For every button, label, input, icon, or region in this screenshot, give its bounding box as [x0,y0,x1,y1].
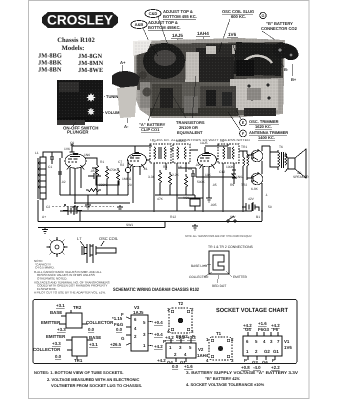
svg-text:.05: .05 [90,169,95,173]
svg-text:3.3K: 3.3K [148,175,156,179]
svg-text:1AJ5: 1AJ5 [172,33,183,38]
chassis title text [38,37,104,74]
svg-text:A-: A- [124,124,129,129]
svg-text:BOTTOM 455 KC.: BOTTOM 455 KC. [163,14,197,19]
svg-text:20: 20 [128,183,132,187]
svg-text:CROSLEY: CROSLEY [47,13,113,28]
svg-text:+26.5: +26.5 [110,342,122,347]
svg-text:EMITTER: EMITTER [46,334,66,339]
svg-text:JM-8BN: JM-8BN [38,67,62,74]
chassis top view photograph [133,38,298,118]
diode crystal D1 [232,170,236,184]
svg-text:G4: G4 [245,327,251,332]
photo speckle texture [134,38,285,118]
loop antenna L1 [39,157,46,199]
callout oval A and B [131,21,147,29]
tuning capacitor dark round mass [143,43,185,79]
T3 windings [177,147,186,159]
svg-text:NOTES: 1. BOTTOM VIEW OF T: NOTES: 1. BOTTOM VIEW OF TUBE SOCKETS. [34,370,124,375]
small knobs on chassis [139,71,147,79]
svg-text:G: G [121,336,125,341]
transformer T1 socket diagram [209,337,232,360]
svg-text:B+: B+ [291,77,297,82]
svg-text:G2: G2 [264,349,270,354]
resistor R2 [105,166,109,182]
svg-text:RED DOT: RED DOT [212,284,226,288]
svg-text:L1: L1 [35,151,39,155]
svg-text:EQUIVALENT: EQUIVALENT [177,130,203,135]
volume knob [87,108,95,116]
svg-text:VOLTMETER FROM SOCKET LUG: VOLTMETER FROM SOCKET LUG TO CHASSIS. [51,383,142,388]
svg-text:1V6: 1V6 [228,32,237,37]
svg-text:TR2: TR2 [73,305,82,310]
ground G3 [72,205,78,211]
svg-text:1V6: 1V6 [64,147,70,151]
tube location label 1AJ5 [171,33,183,38]
svg-text:E: E [242,121,245,125]
transistor TR1 socket diagram [66,337,93,359]
bottom notes [34,370,298,388]
svg-text:R6: R6 [188,167,192,171]
svg-text:C2: C2 [46,205,50,209]
svg-text:F6G3: F6G3 [258,327,270,332]
svg-text:TR1: TR1 [74,358,83,363]
svg-text:SPEAKER: SPEAKER [293,175,309,179]
svg-text:R1: R1 [100,160,104,164]
junction dots [74,202,263,212]
svg-text:500K: 500K [197,180,206,184]
svg-text:CLIP CO1: CLIP CO1 [141,127,160,132]
svg-text:BASE: BASE [50,310,62,315]
svg-text:COLLECTOR: COLLECTOR [33,347,61,352]
V2 labels [157,334,209,369]
svg-text:Chassis R102: Chassis R102 [57,37,95,44]
transistor TR2 socket diagram [59,310,88,328]
leader line 1AJ5 [177,39,178,46]
svg-text:EMITTER: EMITTER [233,275,248,279]
oscillator coil L7 drawing [77,236,119,263]
grid capacitor C2 [58,158,62,195]
wire T2 T3 to V3 [154,150,198,211]
tube V3 1AJ5 [198,147,217,169]
label transistors 2N109 [168,76,205,135]
callout circle G [260,12,266,18]
capacitor C5 [191,170,195,180]
lower circuit board light panel [230,79,278,110]
schematic tiny component labels [35,139,309,227]
svg-text:T6: T6 [279,145,283,149]
callout text adjust top A and B [148,20,181,30]
B minus label on photo right [280,62,297,82]
svg-text:C9: C9 [70,141,74,145]
T4 windings [223,147,234,159]
svg-text:JM-8MN: JM-8MN [78,60,104,67]
tube socket bottom view P1 [47,237,68,257]
lower mid dark components [152,84,182,114]
svg-text:JM-8BG: JM-8BG [38,53,62,60]
wire V2 pins [133,160,150,203]
svg-text:1620 KC.: 1620 KC. [255,124,272,129]
tuning knob [86,93,95,102]
label volume [97,110,122,115]
svg-text:R12: R12 [170,215,176,219]
T2 labels [165,301,196,340]
svg-text:F: F [272,358,275,363]
svg-text:B-: B- [284,67,289,72]
wire bottom bus 1 [60,210,252,212]
svg-text:V2: V2 [198,347,204,352]
callout text osc coil slug [222,9,254,19]
svg-text:0.0: 0.0 [116,327,123,332]
wire loop below V1 [92,168,119,185]
svg-text:.02: .02 [61,180,66,184]
radio front view photograph [57,80,103,125]
svg-text:1MEG: 1MEG [122,177,132,181]
V1 labels [241,321,292,370]
wire v1 cluster [60,180,130,203]
tube V2 socket diagram [166,339,196,362]
tube V1 1V6 [65,144,86,170]
svg-text:+3.1: +3.1 [89,342,98,347]
svg-text:+3.1: +3.1 [56,303,65,308]
svg-text:A&B: A&B [135,22,144,27]
callout text adjust top C and D [163,9,197,19]
TR connections outline diagram [209,251,229,274]
center dark component cluster [196,48,234,92]
IF transformer T3 dashed can [173,144,190,163]
resistor R8 horizontal [86,188,101,192]
extra photo dark patches [140,82,150,108]
svg-text:C12: C12 [219,170,225,174]
svg-text:600 KC.: 600 KC. [231,14,246,19]
callout circle E osc trimmer [240,119,279,129]
svg-text:42V: 42V [248,197,255,201]
wire antenna top [43,152,62,158]
Crosley logo badge [42,12,118,28]
svg-text:VOL: VOL [183,196,190,200]
svg-text:SW: SW [230,215,236,219]
svg-text:JM-8WE: JM-8WE [78,67,103,74]
wire V1 pins down [70,167,81,203]
TR1 labels [33,334,101,363]
svg-text:100K: 100K [226,165,235,169]
trimmer capacitor C1 [50,152,54,164]
svg-text:F: F [192,334,195,339]
svg-text:COLLECTOR: COLLECTOR [86,320,114,325]
svg-text:6.8K: 6.8K [251,187,259,191]
transformer T2 socket diagram [169,308,192,333]
interstage transformer T5 [243,151,249,170]
svg-text:OSC COIL: OSC COIL [99,236,119,241]
socket voltage chart box [33,300,297,364]
battery B2 A cell [63,204,82,222]
svg-text:F6: F6 [273,327,279,332]
svg-text:SOCKET VOLTAGE CHART: SOCKET VOLTAGE CHART [216,307,288,314]
IF transformer T4 dashed can [218,144,239,163]
svg-text:C7: C7 [118,160,122,164]
svg-text:SCHEMATIC WIRING DIAGRAM CHASS: SCHEMATIC WIRING DIAGRAM CHASSIS R102 [113,287,199,293]
svg-text:V2: V2 [130,155,134,159]
svg-text:470K: 470K [109,168,118,172]
svg-text:220K: 220K [99,183,108,187]
wire antenna bottom [38,158,43,211]
svg-text:1V6: 1V6 [284,345,292,350]
photo dark upper band [136,42,283,90]
wire right side verticals [253,192,262,221]
svg-text:SW1: SW1 [126,223,133,227]
svg-text:1AH4: 1AH4 [197,31,209,36]
on-off switch S1 [227,216,236,222]
tube V3 socket diagram [126,315,153,351]
resistor R6 [184,174,188,190]
leader line E to photo [236,110,241,119]
callout circle F antenna trimmer [240,130,289,140]
svg-text:+0.4: +0.4 [154,320,163,325]
svg-text:0.0: 0.0 [172,364,179,369]
ground G5 [206,196,212,202]
svg-text:G: G [262,14,265,18]
svg-text:P: P [163,339,166,344]
svg-text:A+: A+ [120,60,126,65]
svg-text:0.0: 0.0 [55,354,62,359]
IF can light caps [206,46,216,54]
leader line 1V6 [232,38,233,45]
wire bottom bus 3 [38,222,165,228]
mid light vertical strip [185,52,199,89]
svg-text:+3.3: +3.3 [52,341,61,346]
svg-text:.02: .02 [195,163,200,167]
svg-text:1400 KC.: 1400 KC. [258,135,275,140]
svg-text:EMITTER: EMITTER [41,320,61,325]
svg-text:JM-8GN: JM-8GN [78,53,103,60]
A battery clip sketch [112,60,140,129]
resistor R5 [168,172,172,188]
svg-text:+4.2: +4.2 [154,344,163,349]
svg-text:T2: T2 [178,301,184,306]
TR connections labels [189,264,248,288]
IF transformer T2 dashed can [150,144,171,163]
svg-text:TR 1 & TR 2 CONNECTIONS: TR 1 & TR 2 CONNECTIONS [208,245,254,249]
resistor R1 [95,165,99,180]
svg-text:V1: V1 [284,339,290,344]
svg-text:CONNECTOR CO2: CONNECTOR CO2 [261,26,298,31]
T1 labels [206,331,234,363]
svg-text:2. VOLTAGE MEASURED WITH AN: 2. VOLTAGE MEASURED WITH AN ELECTRONIC [47,377,139,382]
speaker dark mass with arc [233,42,282,76]
wire middle cluster [155,168,234,198]
label A battery clip [139,92,166,132]
svg-text:JM-8BK: JM-8BK [38,60,62,67]
capacitor C3 [88,173,101,179]
svg-text:10K: 10K [205,173,212,177]
transistor TR1 [247,149,263,162]
svg-text:G6: G6 [262,360,268,365]
photo left white notch [133,40,152,56]
ground G1 [85,203,91,209]
svg-text:PLUNGER: PLUNGER [67,130,89,135]
svg-text:2.2K: 2.2K [172,173,180,177]
V3 labels [110,305,163,349]
svg-text:0.0: 0.0 [88,327,95,332]
callout text B battery connector [261,21,298,31]
svg-text:A+: A+ [42,215,46,219]
svg-text:4. SOCKET VOLTAGE TOLERANCE: 4. SOCKET VOLTAGE TOLERANCE ±10% [186,382,265,387]
resistor R4 [158,170,162,186]
bottom dark strip [244,108,276,116]
tube location label 1AH4 [196,31,210,36]
svg-text:47K: 47K [157,197,164,201]
svg-text:+0.4: +0.4 [154,332,163,337]
leader line from osc coil slug label [222,19,230,42]
svg-text:NOTE: ALL TRANSISTORS ARE PNP: NOTE: ALL TRANSISTORS ARE PNP TYPE 2N109… [185,234,252,238]
B battery connector blob [272,43,298,61]
resistor R3 [116,168,120,184]
label on-off switch plunger [63,122,98,135]
svg-text:C1: C1 [48,165,52,169]
svg-text:.1: .1 [265,193,268,197]
svg-text:P: P [244,358,247,363]
tube V1 socket diagram [243,332,282,360]
svg-text:1N6: 1N6 [84,153,90,157]
svg-text:T1: T1 [216,331,222,336]
leader lines over photo [150,40,287,56]
svg-text:+4.2: +4.2 [165,335,174,340]
leader line F to photo [228,112,240,130]
tube location label 1V6 [227,32,238,37]
wire V3 pins [203,159,218,211]
svg-text:1N64: 1N64 [236,175,244,179]
wire T4 to TR1 [205,144,247,211]
svg-text:1AJ5: 1AJ5 [133,310,144,315]
svg-text:G1: G1 [273,349,279,354]
svg-text:BASE LUG: BASE LUG [191,264,207,268]
electrolytic capacitor C4 [125,160,130,195]
volume control R7 [190,195,200,211]
speaker SP1 [285,149,306,178]
wire TR stage [243,146,270,211]
svg-text:+1.6: +1.6 [184,364,193,369]
svg-text:3. BATTERY SUPPLY VOLTAGE ": 3. BATTERY SUPPLY VOLTAGE "A" BATTERY 3.… [186,370,298,375]
callout oval C and D [145,10,161,18]
svg-text:.01: .01 [143,167,148,171]
photo base plate [134,38,285,118]
svg-text:C&D: C&D [149,11,158,16]
svg-text:R4: R4 [163,165,167,169]
ground G2 [42,228,48,234]
svg-text:+1.6: +1.6 [258,321,267,326]
battery B1 [242,203,259,211]
lower mid gray area [150,82,245,115]
svg-text:*1.15: *1.15 [112,316,123,321]
top rail wire [72,146,152,147]
svg-text:50: 50 [268,205,272,209]
svg-text:R9: R9 [230,183,234,187]
T2 windings [154,147,166,159]
svg-text:A PILOT CUT TO USE BY THE ADAP: A PILOT CUT TO USE BY THE ADAPTER VOL. ±… [34,290,106,294]
svg-text:Models:: Models: [62,45,85,52]
svg-text:+4.2: +4.2 [157,358,166,363]
notes fine print block [34,259,110,294]
svg-text:TR1: TR1 [241,145,247,149]
svg-text:"B" BATTERY 42V.: "B" BATTERY 42V. [205,376,240,381]
leader line 1AH4 [203,37,204,45]
wire bottom bus 2 [38,200,262,222]
leader line from oval AB to chassis [143,28,150,44]
svg-text:+3.3: +3.3 [57,327,66,332]
wire V1 plate right [85,158,97,165]
leader line from B battery connector label [262,31,287,48]
svg-text:BOTTOM 455KC.: BOTTOM 455KC. [148,25,181,30]
svg-text:F&G2: F&G2 [176,334,188,339]
svg-text:I.F. 455 KC. ALL RESISTORS 1/2: I.F. 455 KC. ALL RESISTORS 1/2 WATT UNLE… [150,138,250,142]
svg-text:.005: .005 [210,203,217,207]
svg-text:BASE: BASE [89,335,101,340]
tube V2 1AH4 [128,147,147,169]
svg-text:.05: .05 [212,183,217,187]
ground G4 [117,205,123,211]
leader line from oval CD to chassis [158,17,166,40]
output transformer T6 [270,150,287,170]
TR2 labels [41,303,114,332]
svg-text:TR2: TR2 [241,183,247,187]
svg-text:T5: T5 [246,155,250,159]
transistor TR2 [247,172,263,185]
label tuning [98,94,121,99]
svg-text:L7: L7 [77,236,82,241]
svg-text:B1: B1 [256,215,260,219]
ground G6 [192,224,198,230]
dashed gang line [52,205,114,207]
